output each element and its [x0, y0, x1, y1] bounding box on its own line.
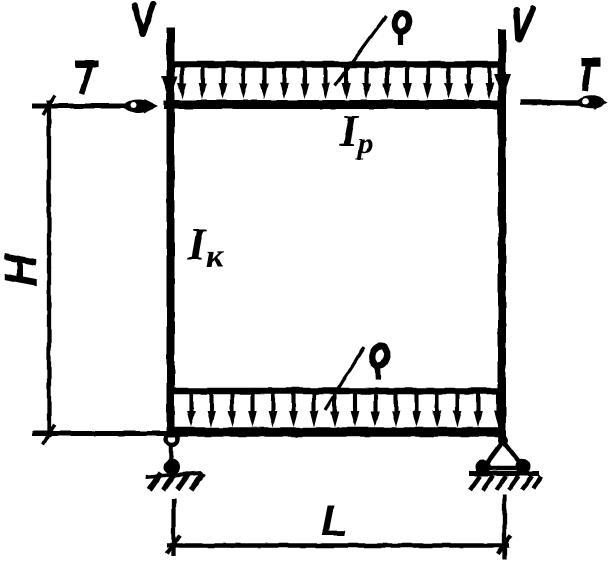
right support apex joint [498, 435, 508, 445]
L dim tick left [167, 535, 180, 554]
L right extension line [502, 495, 506, 559]
bottom distributed load ticks [191, 393, 499, 420]
leader line bottom q [325, 347, 364, 410]
label T right [581, 62, 601, 91]
L dim tick right [498, 535, 511, 554]
right column [498, 29, 506, 438]
label V right [517, 9, 534, 40]
left support pin [166, 433, 179, 474]
label q top [392, 11, 412, 45]
H dim tick bottom [43, 424, 55, 444]
leader line top q [335, 16, 386, 86]
dimension L line [167, 543, 509, 548]
bottom load line [170, 388, 505, 395]
bottom beam [166, 427, 506, 437]
top load line [167, 61, 505, 68]
right support ground hatching [470, 476, 541, 490]
H bottom extension line [32, 431, 166, 436]
L left extension line [171, 499, 175, 556]
label q bottom [370, 344, 389, 380]
svg-text:L: L [321, 497, 348, 546]
right support triangle [483, 441, 524, 468]
right support base circles [477, 461, 489, 473]
force V arrowhead right [494, 74, 511, 99]
top distributed load ticks [182, 67, 490, 92]
top beam [164, 100, 506, 109]
left support ground hatching [146, 473, 203, 490]
label T left [76, 64, 99, 94]
bottom load arrowheads [187, 411, 503, 427]
label V left [135, 4, 154, 34]
top load arrowheads [178, 83, 494, 99]
left column [167, 27, 175, 437]
force T arrow right [520, 95, 608, 110]
force T arrow left [32, 99, 158, 113]
H dim tick top [43, 95, 55, 115]
dimension H line [47, 100, 51, 437]
svg-text:H: H [0, 253, 46, 287]
right support ground line [469, 471, 539, 476]
force V arrowhead left [161, 76, 178, 101]
